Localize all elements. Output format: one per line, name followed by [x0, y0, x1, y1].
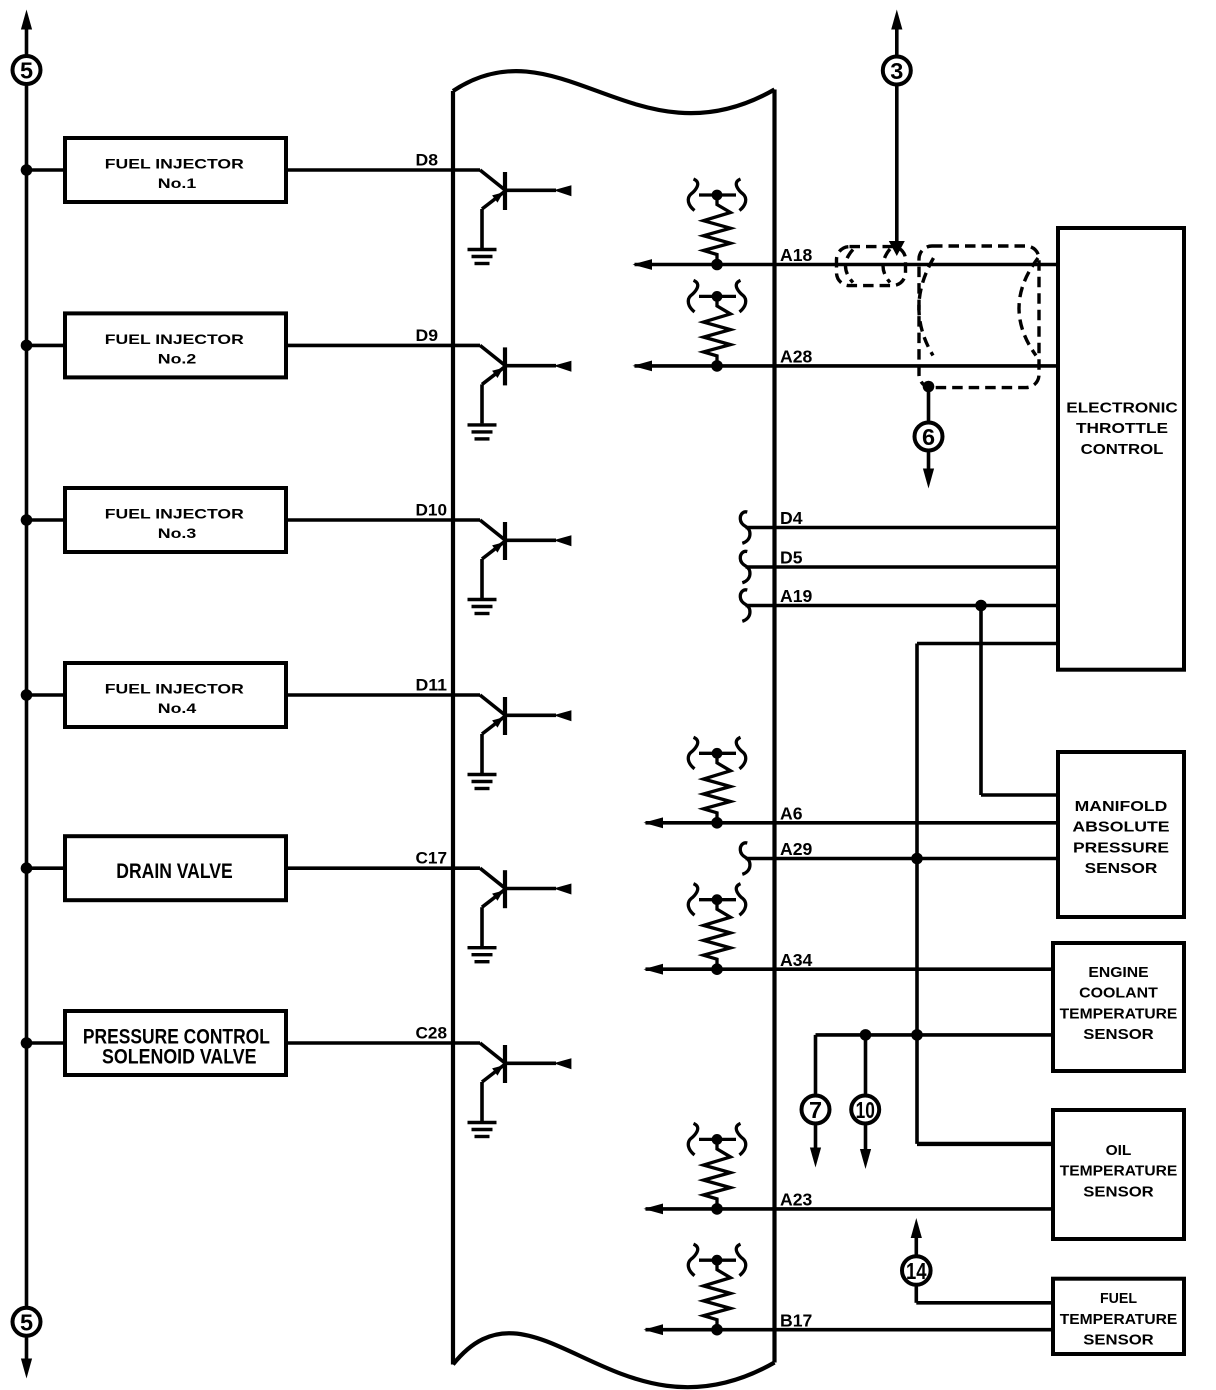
svg-text:10: 10 [856, 1097, 875, 1123]
svg-text:No.4: No.4 [158, 700, 197, 716]
svg-text:7: 7 [809, 1097, 822, 1123]
svg-text:FUEL INJECTOR: FUEL INJECTOR [105, 331, 244, 347]
svg-text:No.3: No.3 [158, 525, 197, 541]
svg-text:A29: A29 [780, 839, 812, 859]
svg-text:FUEL INJECTOR: FUEL INJECTOR [105, 156, 244, 172]
svg-text:No.1: No.1 [158, 175, 197, 191]
svg-text:ENGINE: ENGINE [1088, 965, 1148, 981]
svg-text:SENSOR: SENSOR [1083, 1027, 1154, 1043]
svg-text:FUEL INJECTOR: FUEL INJECTOR [105, 506, 244, 522]
svg-text:TEMPERATURE: TEMPERATURE [1060, 1164, 1178, 1180]
svg-text:A23: A23 [780, 1190, 812, 1210]
svg-text:D8: D8 [416, 151, 439, 170]
svg-text:D4: D4 [780, 508, 803, 528]
svg-text:A28: A28 [780, 347, 812, 367]
svg-text:6: 6 [922, 424, 935, 450]
svg-text:C17: C17 [416, 849, 448, 868]
svg-text:D11: D11 [416, 676, 448, 695]
svg-text:FUEL INJECTOR: FUEL INJECTOR [105, 681, 244, 697]
svg-text:A18: A18 [780, 245, 812, 265]
svg-text:3: 3 [890, 58, 903, 84]
svg-text:PRESSURE: PRESSURE [1073, 840, 1169, 856]
svg-text:OIL: OIL [1106, 1143, 1132, 1159]
svg-text:A19: A19 [780, 586, 812, 606]
svg-text:D10: D10 [416, 501, 448, 520]
svg-text:CONTROL: CONTROL [1081, 442, 1164, 458]
svg-text:5: 5 [20, 58, 33, 84]
svg-text:TEMPERATURE: TEMPERATURE [1060, 1312, 1178, 1328]
svg-text:FUEL: FUEL [1100, 1291, 1137, 1307]
svg-text:A6: A6 [780, 803, 803, 823]
svg-text:SENSOR: SENSOR [1083, 1333, 1154, 1349]
svg-text:SOLENOID VALVE: SOLENOID VALVE [102, 1045, 257, 1068]
svg-text:B17: B17 [780, 1310, 812, 1330]
svg-text:D5: D5 [780, 548, 803, 568]
svg-text:ABSOLUTE: ABSOLUTE [1072, 820, 1169, 836]
svg-text:COOLANT: COOLANT [1079, 986, 1158, 1002]
svg-text:MANIFOLD: MANIFOLD [1075, 799, 1168, 815]
svg-text:A34: A34 [780, 950, 812, 970]
svg-text:THROTTLE: THROTTLE [1076, 421, 1168, 437]
svg-text:D9: D9 [416, 326, 439, 345]
svg-text:5: 5 [20, 1309, 33, 1335]
svg-text:C28: C28 [416, 1024, 448, 1043]
svg-text:SENSOR: SENSOR [1083, 1184, 1154, 1200]
svg-text:14: 14 [906, 1258, 927, 1284]
svg-text:No.2: No.2 [158, 351, 197, 367]
svg-text:ELECTRONIC: ELECTRONIC [1066, 401, 1178, 417]
svg-text:SENSOR: SENSOR [1085, 861, 1158, 877]
svg-text:DRAIN VALVE: DRAIN VALVE [116, 860, 232, 883]
svg-text:TEMPERATURE: TEMPERATURE [1060, 1006, 1178, 1022]
